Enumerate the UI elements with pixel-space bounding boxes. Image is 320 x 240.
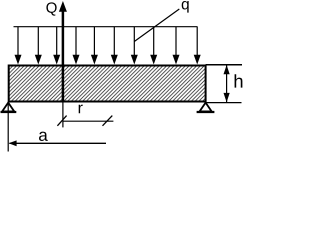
load arrow 7: [131, 27, 138, 65]
load arrow 4: [73, 27, 80, 65]
label h: [235, 74, 243, 87]
force Q arrowhead: [59, 1, 67, 12]
dimension a line: [10, 142, 107, 144]
force Q arrow (stem): [62, 10, 65, 102]
leader line to q: [134, 9, 179, 42]
beam (hatched rectangle): [9, 66, 206, 102]
load arrow 1: [15, 27, 22, 65]
right support triangle: [197, 103, 215, 112]
label Q: [46, 2, 56, 15]
left support triangle: [1, 103, 17, 112]
left extension line (for a): [7, 103, 9, 152]
load arrow 8: [150, 27, 157, 65]
dimension r line: [63, 120, 114, 122]
dimension r left tick: [57, 116, 66, 126]
load arrow 9: [173, 27, 180, 65]
dimension r right tick: [103, 116, 113, 126]
load arrow 3: [53, 27, 60, 65]
dimension h top arrowhead: [224, 65, 230, 74]
dimension h bottom arrowhead: [224, 93, 230, 102]
load arrow 10: [194, 27, 201, 65]
load arrow 5: [91, 27, 98, 65]
bottom extension line (right of beam, for h): [206, 102, 242, 104]
dimension h line: [226, 65, 228, 102]
label r: [79, 105, 83, 114]
load arrow 2: [35, 27, 42, 65]
distributed load top line: [14, 26, 198, 28]
load arrow 6: [111, 27, 118, 65]
top extension line (right of beam, for h): [206, 64, 242, 66]
extension line under Q (for r): [62, 102, 64, 128]
dimension a arrowhead: [9, 140, 17, 146]
label a: [39, 132, 48, 141]
label q: [182, 1, 189, 13]
